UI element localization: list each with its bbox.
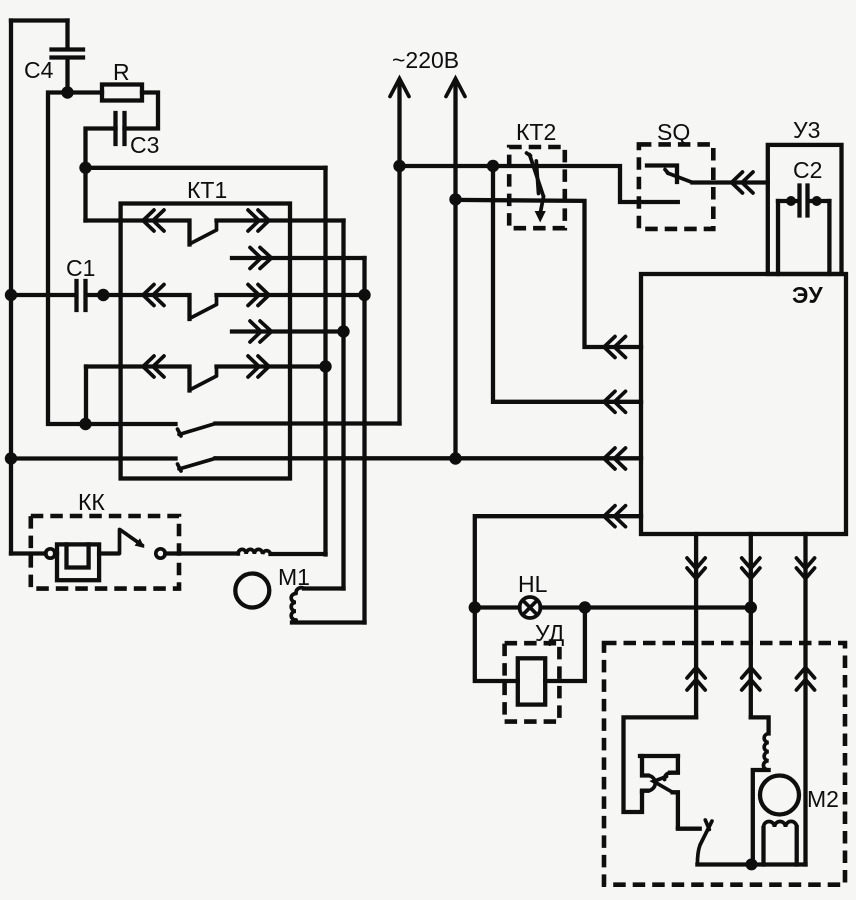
wire vertical V_B (341, 221, 345, 589)
wire row2 arrowed (232, 248, 365, 269)
node HL left (469, 601, 481, 613)
wire EU input4 (475, 516, 641, 607)
wire row4 arrowed (232, 321, 344, 342)
power arrow left phase (390, 79, 409, 424)
power arrow right phase (446, 79, 465, 200)
node junction C4-R (61, 86, 73, 98)
wire vertical V_C (362, 258, 366, 623)
node junction C3 bottom (79, 162, 91, 174)
svg-text:У3: У3 (793, 117, 820, 143)
motor M2 box (604, 643, 845, 885)
node V_B row4 (337, 325, 349, 337)
wire 220V bus to KT2 and SQ (400, 166, 678, 202)
arrows EU input4 (604, 506, 626, 527)
svg-text:SQ: SQ (657, 119, 690, 145)
capacitor C3 (86, 113, 160, 168)
wire EU output right (803, 534, 807, 865)
arrows SQ-U3 wire (732, 172, 754, 193)
winding M2 rotor (764, 821, 797, 864)
wire vertical V_A (323, 168, 327, 555)
svg-text:C4: C4 (24, 57, 54, 83)
svg-text:~220В: ~220В (392, 47, 459, 73)
wire KT2 lower bus to EU input1 (456, 200, 642, 347)
svg-text:М2: М2 (807, 786, 839, 812)
svg-text:КТ2: КТ2 (516, 119, 556, 145)
relay KK thermal (11, 489, 179, 589)
rotor M2 (760, 776, 799, 815)
node V_A row5 (319, 360, 331, 372)
node junction left rail row3 (5, 289, 17, 301)
node HL to M2 middle (745, 601, 757, 613)
motor M1 (165, 549, 325, 607)
wire left vertical rail (9, 21, 13, 554)
node V_C row3 (358, 289, 370, 301)
node HL right / UA branch (579, 601, 591, 613)
node C2 right (812, 196, 822, 206)
wire EU output middle (749, 534, 753, 717)
wire C3 node to V_A corner (86, 166, 326, 170)
capacitor C4 (24, 21, 83, 93)
solenoid UA (475, 608, 585, 722)
contact KT1.4 row6 switch (86, 424, 400, 437)
wire M2 bottom bus (697, 862, 805, 866)
arrows output right down (796, 558, 814, 579)
arrows output middle down (742, 558, 760, 579)
arrows output left up (687, 668, 705, 691)
capacitor C1 (11, 255, 103, 310)
winding M2 stator (751, 717, 769, 864)
lamp HL (475, 571, 751, 618)
wire M2 left branch loop (624, 717, 697, 812)
wire SQ to U3 (693, 180, 768, 184)
wire EU output left (694, 534, 698, 717)
contact KT2 timed (509, 119, 565, 228)
wire 220V right phase down to row7 (453, 199, 457, 458)
wire KT2 branch down to EU input2 (493, 166, 641, 402)
svg-text:HL: HL (518, 571, 548, 597)
arrows output middle up (742, 668, 760, 691)
arrows EU input2 (604, 391, 626, 412)
capacitor C2 (778, 157, 829, 274)
node junction row6 left (79, 418, 91, 430)
node row7 220V junction (449, 452, 461, 464)
resistor R (68, 59, 159, 129)
arrows output right up (796, 668, 814, 691)
svg-text:C1: C1 (66, 255, 95, 281)
node junction left rail row7 (5, 452, 17, 464)
node 220V right tap (449, 193, 461, 205)
node M2 bus (746, 858, 758, 870)
wire row5 corner down to row6 node (84, 367, 88, 425)
node junction C1 right (97, 289, 109, 301)
unit EU control box (641, 274, 846, 534)
relay block KT1 box (121, 204, 290, 479)
contact KT1.3 row5 NC timed (86, 356, 326, 391)
contact M2 protector (640, 756, 678, 828)
arrows output left down (687, 558, 705, 579)
wire top bus (11, 18, 68, 22)
svg-text:КТ1: КТ1 (187, 177, 227, 203)
wire C3 node down to row1 (83, 168, 87, 221)
svg-text:R: R (113, 59, 130, 85)
switch M2 centrifugal (678, 820, 712, 865)
svg-text:C3: C3 (130, 132, 159, 158)
svg-text:ЭУ: ЭУ (792, 282, 823, 308)
switch SQ limit (639, 119, 713, 229)
svg-text:C2: C2 (793, 157, 822, 183)
contact KT1.1 row1 NC timed (86, 210, 344, 245)
svg-text:М1: М1 (278, 564, 310, 590)
node C2 left (786, 196, 796, 206)
wire C4 junction to lower-left corner run (48, 93, 86, 425)
node 220V left tap (393, 160, 405, 172)
unit U3 box (768, 145, 842, 274)
node KT2 branch (487, 160, 499, 172)
svg-text:УД: УД (535, 620, 565, 646)
winding M1 start (291, 588, 364, 623)
svg-text:КК: КК (78, 489, 105, 515)
arrows EU input1 (604, 337, 626, 358)
contact KT1.5 row7 switch (11, 448, 641, 471)
contact KT1.2 row3 NC timed (103, 285, 364, 320)
